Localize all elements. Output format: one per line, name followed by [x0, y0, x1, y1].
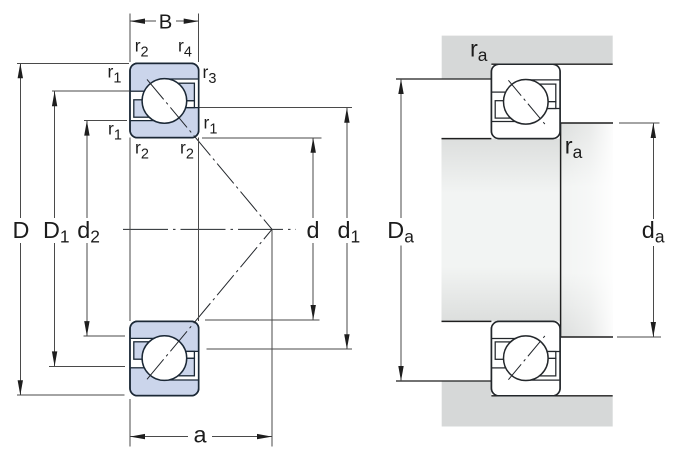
D extension line bottom — [17, 394, 125, 396]
d1 extension line top — [200, 107, 352, 109]
dimension D line — [19, 63, 21, 218]
D1 extension line bottom — [49, 365, 125, 367]
dimension da line — [652, 123, 654, 219]
bearing section left bottom — [130, 321, 199, 395]
shaft shoulder face vertical line — [560, 123, 562, 337]
svg-text:r3: r3 — [203, 62, 217, 87]
housing shoulder line bottom — [396, 380, 491, 382]
a extension line right (apex vertical) — [271, 229, 273, 446]
d extension line top — [202, 137, 322, 139]
dimension d1 line — [346, 108, 348, 218]
dimension d line — [312, 138, 314, 218]
shaft shoulder bottom line — [561, 336, 613, 338]
svg-text:r4: r4 — [178, 36, 192, 61]
contact angle line left top — [147, 79, 272, 229]
d2 extension line top — [84, 120, 127, 122]
bearing section right bottom — [491, 321, 560, 395]
bearing section right top — [491, 64, 560, 138]
housing bottom (right view) — [442, 381, 613, 427]
svg-text:d2: d2 — [77, 217, 100, 247]
shaft surface line top — [442, 138, 492, 140]
B extension line right — [198, 14, 200, 63]
svg-text:r1: r1 — [204, 113, 218, 138]
bearing side face line right — [198, 138, 200, 321]
svg-text:r1: r1 — [108, 62, 122, 87]
svg-text:a: a — [193, 422, 207, 448]
svg-text:r2: r2 — [135, 138, 149, 163]
housing shoulder line top (Da surface) — [396, 78, 491, 80]
housing top (right view) — [442, 36, 613, 79]
D extension line top — [17, 62, 129, 64]
d1 extension line bottom — [207, 348, 352, 350]
contact angle line left bottom — [147, 229, 272, 379]
dimension D1 line — [54, 91, 56, 218]
svg-text:D1: D1 — [43, 217, 70, 247]
dimension d2 line — [86, 121, 88, 218]
svg-text:r2: r2 — [180, 138, 194, 163]
axis centerline — [123, 228, 296, 230]
svg-text:r2: r2 — [135, 36, 149, 61]
housing bore line bottom — [491, 395, 612, 397]
D1 extension line top — [52, 90, 130, 92]
svg-text:d1: d1 — [338, 217, 361, 247]
shaft shoulder (right view) — [561, 123, 613, 337]
svg-text:B: B — [159, 12, 173, 34]
dimension da extension lines — [619, 122, 660, 124]
dimension Da line — [400, 79, 402, 218]
housing bore line top — [491, 63, 612, 65]
shaft body (right view) — [442, 139, 561, 322]
svg-text:Da: Da — [387, 217, 414, 247]
d2 extension line bottom — [84, 335, 126, 337]
bearing side face line left — [129, 138, 131, 321]
svg-text:D: D — [12, 217, 29, 243]
contact angle line right bottom — [508, 334, 546, 380]
B extension line left — [129, 14, 131, 63]
dimension a line — [130, 436, 188, 438]
shaft surface line bottom — [442, 320, 492, 322]
bearing section left top — [130, 63, 199, 137]
shaft shoulder top line (da surface) — [561, 122, 613, 124]
d extension line bottom — [205, 319, 320, 321]
contact angle line right top — [508, 80, 546, 126]
svg-text:d: d — [306, 217, 319, 243]
dimension B line — [130, 20, 156, 22]
a extension line left — [129, 399, 131, 447]
svg-text:da: da — [642, 217, 665, 247]
svg-text:r1: r1 — [108, 119, 122, 144]
